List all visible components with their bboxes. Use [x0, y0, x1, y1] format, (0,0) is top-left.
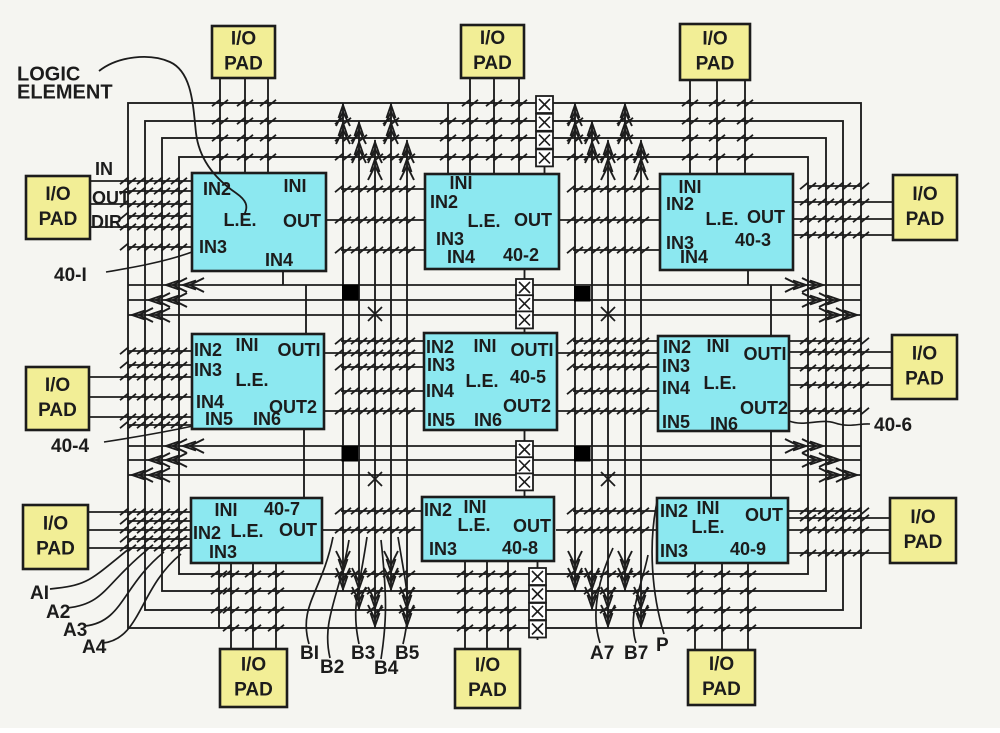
label P	[656, 635, 669, 656]
RAM bit chain top (boxes with X)	[536, 96, 553, 174]
svg-text:IN2: IN2	[426, 337, 454, 357]
svg-text:OUT: OUT	[745, 505, 783, 525]
svg-text:PAD: PAD	[224, 54, 263, 75]
wire TP1 I/O pad connections	[212, 78, 276, 173]
svg-text:PAD: PAD	[905, 369, 944, 390]
I/O pad BP2	[455, 649, 520, 708]
svg-text:OUTI: OUTI	[744, 344, 787, 364]
svg-text:OUTI: OUTI	[278, 340, 321, 360]
svg-text:L.E.: L.E.	[465, 371, 498, 391]
svg-text:OUT: OUT	[283, 211, 321, 231]
svg-text:40-I: 40-I	[54, 265, 87, 286]
svg-text:L.E.: L.E.	[223, 210, 256, 230]
leader A7	[596, 548, 613, 643]
wire LE7 left input stubs	[120, 517, 191, 543]
label 40-6	[874, 415, 912, 436]
svg-text:IN2: IN2	[666, 194, 694, 214]
leader P	[652, 502, 664, 634]
wire ring conductor 3	[162, 138, 826, 591]
svg-text:L.E.: L.E.	[467, 211, 500, 231]
logic element 40-4	[192, 334, 324, 429]
wire LE3 IN4 stub	[747, 270, 749, 285]
leader B2	[328, 540, 349, 658]
svg-text:40-3: 40-3	[735, 230, 771, 250]
svg-text:IN2: IN2	[660, 501, 688, 521]
svg-text:OUT: OUT	[279, 520, 317, 540]
svg-text:IN4: IN4	[265, 250, 293, 270]
wire BP1 I/O pad connections	[223, 563, 284, 649]
wire horizontal channel row1/row2 track 1	[128, 278, 861, 292]
wire right stubs row1	[800, 182, 869, 190]
wire LP3 I/O pad connections	[88, 508, 191, 552]
svg-text:IN2: IN2	[193, 523, 221, 543]
svg-text:40-7: 40-7	[264, 499, 300, 519]
I/O pad BP1	[220, 649, 287, 707]
svg-text:I/O: I/O	[241, 655, 266, 676]
svg-text:IN6: IN6	[474, 410, 502, 430]
svg-text:A4: A4	[82, 637, 107, 658]
wire RP1 I/O pad connections	[793, 198, 893, 239]
svg-text:OUTI: OUTI	[511, 340, 554, 360]
leader B7	[633, 555, 648, 643]
svg-text:PAD: PAD	[39, 209, 78, 230]
wire horizontal nets LE7-LE8	[322, 507, 423, 534]
wire horizontal channel row2/row3 track 2	[128, 453, 861, 467]
svg-text:INI: INI	[696, 498, 719, 518]
junction block 1	[342, 285, 359, 301]
label A7	[590, 643, 614, 664]
wire LE6 top stub	[770, 285, 772, 336]
leader 40-4	[104, 426, 193, 442]
svg-text:IN3: IN3	[427, 355, 455, 375]
svg-text:IN: IN	[95, 159, 113, 179]
leader BI	[306, 537, 333, 644]
wire horizontal nets LE1-LE2	[326, 185, 425, 254]
leader A4	[103, 554, 181, 643]
wire LE6-LE9 stub	[770, 431, 772, 498]
svg-text:IN5: IN5	[662, 412, 690, 432]
svg-text:IN3: IN3	[209, 542, 237, 562]
label DIR.	[91, 212, 127, 232]
leader AI	[50, 548, 130, 589]
svg-text:L.E.: L.E.	[235, 370, 268, 390]
junction block 4	[574, 446, 591, 462]
wire vertical channel col2/col3 track 3	[600, 140, 616, 628]
leader 40-1	[106, 252, 192, 272]
svg-text:IN4: IN4	[426, 381, 454, 401]
wire right stubs row2	[789, 337, 869, 415]
wire vertical channel col1/col2 track 5	[399, 140, 415, 628]
RAM bit chain row1/row2 (boxes with X)	[516, 269, 533, 333]
label LOGIC ELEMENT	[17, 63, 113, 103]
svg-text:40-9: 40-9	[730, 539, 766, 559]
svg-text:IN6: IN6	[710, 414, 738, 434]
svg-text:L.E.: L.E.	[230, 521, 263, 541]
svg-text:IN3: IN3	[199, 237, 227, 257]
svg-text:P: P	[656, 635, 669, 656]
label A3	[63, 620, 87, 641]
svg-text:INI: INI	[235, 335, 258, 355]
svg-text:IN2: IN2	[203, 179, 231, 199]
logic element 40-9	[657, 498, 788, 563]
I/O pad TP3	[680, 24, 750, 80]
leader B5	[398, 537, 408, 644]
svg-text:PAD: PAD	[906, 209, 945, 230]
wire horizontal nets LE2-LE3	[559, 185, 660, 254]
label IN	[95, 159, 113, 179]
wire horizontal channel row2/row3 track 3	[128, 468, 861, 482]
wire BP3 I/O pad connections	[687, 563, 756, 650]
wire LE1 IN4 stub	[282, 271, 284, 285]
wire right stubs row3	[788, 507, 869, 515]
wire vertical channel col2/col3 track 5	[633, 140, 649, 628]
I/O pad LP1	[26, 176, 90, 239]
svg-text:IN2: IN2	[663, 337, 691, 357]
svg-text:I/O: I/O	[475, 655, 500, 676]
svg-text:PAD: PAD	[234, 680, 273, 701]
label 40-4	[51, 436, 89, 457]
wire LE4 left input stubs	[120, 347, 192, 429]
wire LE1 left input stubs	[120, 187, 192, 251]
wire TP2 I/O pad connections	[462, 78, 527, 174]
svg-text:IN3: IN3	[436, 229, 464, 249]
svg-text:I/O: I/O	[45, 184, 70, 205]
leader A2	[67, 550, 147, 608]
logic element 40-5	[424, 333, 557, 430]
svg-text:I/O: I/O	[912, 184, 937, 205]
svg-text:PAD: PAD	[468, 680, 507, 701]
svg-text:I/O: I/O	[709, 654, 734, 675]
label B7	[624, 643, 648, 664]
wire BP2 I/O pad connections	[457, 561, 516, 649]
wire horizontal channel row1/row2 track 3	[128, 308, 861, 322]
svg-text:IN3: IN3	[429, 539, 457, 559]
wire RP3 I/O pad connections	[788, 514, 890, 557]
svg-text:IN3: IN3	[194, 360, 222, 380]
logic element 40-1	[192, 173, 326, 271]
svg-text:OUT: OUT	[514, 210, 552, 230]
wire ring conductor 2	[145, 121, 843, 610]
wire LP2 I/O pad connections	[89, 373, 192, 421]
svg-text:IN3: IN3	[662, 356, 690, 376]
wire LE4 top stub	[305, 285, 307, 334]
svg-text:ELEMENT: ELEMENT	[17, 81, 113, 103]
svg-text:40-6: 40-6	[874, 415, 912, 436]
svg-text:PAD: PAD	[473, 53, 512, 74]
svg-text:40-8: 40-8	[502, 538, 538, 558]
wire vertical channel col1/col2 track 4	[383, 103, 399, 591]
svg-text:OUT: OUT	[92, 188, 130, 208]
I/O pad LP2	[26, 367, 89, 430]
svg-text:PAD: PAD	[36, 539, 75, 560]
RAM bit chain bottom (boxes with X)	[529, 561, 546, 640]
leader A3	[85, 552, 164, 626]
cross connection point 4	[601, 472, 615, 486]
svg-text:INI: INI	[463, 497, 486, 517]
svg-text:INI: INI	[449, 173, 472, 193]
wire horizontal channel row1/row2 track 2	[128, 293, 861, 307]
wire ring conductor 4	[179, 157, 808, 574]
svg-text:L.E.: L.E.	[705, 209, 738, 229]
svg-text:IN2: IN2	[194, 340, 222, 360]
logic element 40-2	[425, 173, 559, 269]
wire vertical channel col1/col2 track 3	[367, 140, 383, 628]
I/O pad RP3	[890, 498, 956, 563]
I/O pad LP3	[23, 505, 88, 569]
svg-text:I/O: I/O	[231, 29, 256, 50]
junction block 3	[342, 446, 359, 462]
svg-text:40-4: 40-4	[51, 436, 89, 457]
wire LE7 bottom stub	[211, 563, 227, 628]
svg-text:IN4: IN4	[662, 378, 690, 398]
I/O pad RP1	[893, 175, 957, 240]
svg-text:IN5: IN5	[205, 409, 233, 429]
svg-text:IN5: IN5	[427, 410, 455, 430]
I/O pad BP3	[688, 650, 755, 705]
label OUT	[92, 188, 130, 208]
wire LP1 I/O pad connections	[90, 177, 192, 231]
wire horizontal nets LE8-LE9	[556, 507, 657, 534]
svg-text:B3: B3	[351, 643, 375, 664]
svg-text:PAD: PAD	[38, 400, 77, 421]
wire horizontal channel row2/row3 track 1	[128, 439, 861, 453]
svg-text:I/O: I/O	[702, 29, 727, 50]
svg-text:INI: INI	[706, 336, 729, 356]
label A4	[82, 637, 107, 658]
wire horizontal nets LE5-LE6	[556, 337, 658, 415]
wire vertical channel col2/col3 track 1	[567, 103, 583, 591]
svg-text:OUT: OUT	[513, 516, 551, 536]
svg-text:BI: BI	[300, 643, 319, 664]
svg-text:INI: INI	[283, 176, 306, 196]
svg-text:L.E.: L.E.	[457, 515, 490, 535]
svg-text:L.E.: L.E.	[703, 373, 736, 393]
svg-text:L.E.: L.E.	[691, 517, 724, 537]
label BI	[300, 643, 319, 664]
svg-text:DIR.: DIR.	[91, 212, 127, 232]
svg-text:A7: A7	[590, 643, 614, 664]
label AI	[30, 583, 49, 604]
wire TP3 I/O pad connections	[682, 80, 753, 174]
label A2	[46, 602, 70, 623]
svg-text:B2: B2	[320, 657, 344, 678]
wire ring conductor 1	[128, 103, 861, 628]
logic element 40-3	[660, 174, 793, 270]
wire LE4-LE7 stub	[303, 429, 305, 498]
label B2	[320, 657, 344, 678]
svg-text:INI: INI	[214, 500, 237, 520]
label B5	[395, 643, 420, 664]
svg-text:I/O: I/O	[480, 28, 505, 49]
junction block 2	[574, 286, 591, 302]
leader 40-6	[789, 421, 870, 425]
leader B3	[356, 537, 367, 644]
svg-text:IN6: IN6	[253, 409, 281, 429]
svg-text:OUT2: OUT2	[503, 396, 551, 416]
wire vertical channel col2/col3 track 2	[584, 121, 600, 610]
logic element 40-6	[658, 336, 789, 434]
svg-text:IN2: IN2	[430, 192, 458, 212]
wire vertical channel col1/col2 track 1	[335, 103, 351, 591]
svg-text:PAD: PAD	[696, 54, 735, 75]
leader curve LOGIC ELEMENT to 40-1	[99, 57, 246, 215]
label 40-1	[54, 265, 87, 286]
svg-text:I/O: I/O	[910, 507, 935, 528]
svg-text:IN4: IN4	[447, 247, 475, 267]
svg-text:B7: B7	[624, 643, 648, 664]
svg-text:PAD: PAD	[702, 679, 741, 700]
svg-text:IN4: IN4	[680, 247, 708, 267]
cross connection point 3	[368, 472, 382, 486]
label B3	[351, 643, 375, 664]
wire vertical channel col1/col2 track 2	[351, 121, 367, 610]
svg-text:I/O: I/O	[45, 375, 70, 396]
svg-text:40-2: 40-2	[503, 245, 539, 265]
wire RP2 I/O pad connections	[789, 348, 892, 389]
svg-text:I/O: I/O	[43, 514, 68, 535]
svg-text:INI: INI	[473, 336, 496, 356]
logic element 40-7	[191, 498, 322, 563]
wire LE2 top feed	[440, 103, 456, 174]
I/O pad TP1	[212, 26, 275, 78]
svg-text:40-5: 40-5	[510, 367, 546, 387]
svg-text:OUT2: OUT2	[740, 398, 788, 418]
svg-text:IN2: IN2	[424, 500, 452, 520]
RAM bit chain row2/row3 (boxes with X)	[516, 430, 533, 497]
wire vertical channel col2/col3 track 4	[617, 103, 633, 591]
svg-text:IN3: IN3	[660, 541, 688, 561]
cross connection point 1	[368, 307, 382, 321]
I/O pad RP2	[892, 335, 957, 399]
svg-text:I/O: I/O	[912, 344, 937, 365]
svg-text:AI: AI	[30, 583, 49, 604]
leader B4	[381, 540, 386, 659]
I/O pad TP2	[461, 25, 524, 78]
wire horizontal nets LE4-LE5	[324, 337, 425, 415]
svg-text:PAD: PAD	[904, 532, 943, 553]
svg-text:B5: B5	[395, 643, 420, 664]
logic element 40-8	[422, 497, 554, 561]
svg-text:OUT: OUT	[747, 207, 785, 227]
cross connection point 2	[601, 307, 615, 321]
label B4	[374, 658, 399, 679]
